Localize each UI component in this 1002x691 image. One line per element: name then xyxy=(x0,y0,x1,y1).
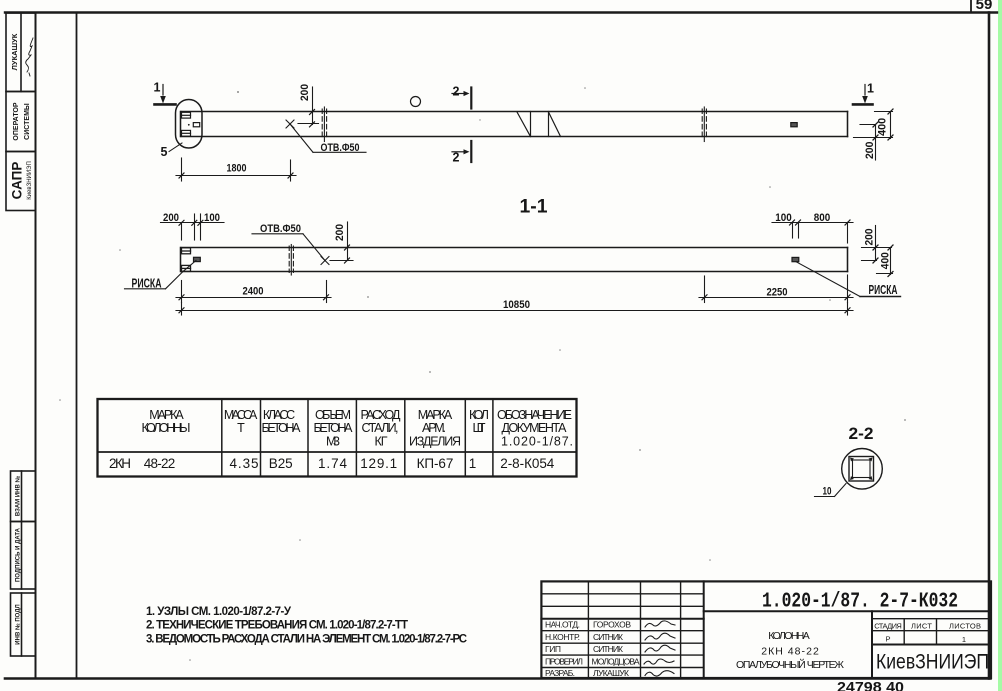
svg-text:4.35: 4.35 xyxy=(230,456,259,471)
margin stamp box PODPIS I DATA xyxy=(11,522,36,590)
svg-text:2. ТЕХНИЧЕСКИЕ ТРЕБОВАНИЯ СМ.: 2. ТЕХНИЧЕСКИЕ ТРЕБОВАНИЯ СМ. 1.020-1/87… xyxy=(146,620,408,632)
title block horizontal lines xyxy=(541,594,991,668)
svg-text:1800: 1800 xyxy=(227,163,247,175)
svg-text:ОПАЛУБОЧНЫЙ ЧЕРТЕЖ: ОПАЛУБОЧНЫЙ ЧЕРТЕЖ xyxy=(736,658,844,671)
svg-text:5: 5 xyxy=(161,145,168,159)
label 10 with leader xyxy=(815,484,847,498)
svg-text:Т: Т xyxy=(237,421,245,435)
column end bottom plate (1-1) xyxy=(182,265,191,271)
svg-text:СИСТЕМЫ: СИСТЕМЫ xyxy=(24,103,31,140)
svg-text:МОЛОДЦОВА: МОЛОДЦОВА xyxy=(592,657,640,667)
svg-text:1-1: 1-1 xyxy=(520,197,548,218)
svg-text:КЛАСС: КЛАСС xyxy=(263,408,295,422)
margin stamp box LUKASHUK xyxy=(6,13,36,92)
svg-text:ПОДПИСЬ И ДАТА: ПОДПИСЬ И ДАТА xyxy=(16,527,22,582)
svg-text:1.020-1/87.: 1.020-1/87. xyxy=(501,434,573,448)
column end top plate (top view) xyxy=(182,112,191,118)
detail circle 2-2 xyxy=(842,449,883,490)
svg-text:СТАДИЯ: СТАДИЯ xyxy=(874,622,902,631)
notes text block xyxy=(146,606,467,645)
svg-text:РАЗРАБ.: РАЗРАБ. xyxy=(545,668,575,678)
page number box 59 xyxy=(971,0,992,13)
spec table grid xyxy=(98,399,577,477)
organization name KievZNIIEP xyxy=(876,650,989,673)
svg-text:БЕТОНА: БЕТОНА xyxy=(262,421,302,435)
svg-text:ОТВ.Ф50: ОТВ.Ф50 xyxy=(321,142,360,154)
svg-text:АРМ.: АРМ. xyxy=(422,421,446,435)
svg-text:2250: 2250 xyxy=(767,287,788,299)
svg-text:400: 400 xyxy=(876,118,888,136)
svg-text:1.020-1/87. 2-7-К032: 1.020-1/87. 2-7-К032 xyxy=(762,591,958,614)
hole cross OTV F50 (1-1) xyxy=(252,223,329,265)
right end dims 400 and 200 (top view) xyxy=(854,109,894,160)
svg-text:БЕТОНА: БЕТОНА xyxy=(314,421,354,435)
svg-text:10850: 10850 xyxy=(503,299,530,311)
svg-text:МАССА: МАССА xyxy=(224,408,258,422)
column end top plate (1-1) xyxy=(182,248,191,254)
handwritten archive number 24798 40 xyxy=(837,679,904,691)
svg-text:ИЗДЕЛИЯ: ИЗДЕЛИЯ xyxy=(409,434,461,448)
svg-text:ГОРОХОВ: ГОРОХОВ xyxy=(593,620,631,630)
svg-text:2-2: 2-2 xyxy=(849,424,874,443)
dimension 2400 xyxy=(176,281,331,303)
svg-text:ЛУКАШУК: ЛУКАШУК xyxy=(593,668,629,678)
riska mark right (1-1) with leader xyxy=(792,257,901,297)
svg-text:400: 400 xyxy=(880,252,892,269)
center dot in oval xyxy=(188,124,190,126)
console parallelogram (top view) xyxy=(517,112,561,137)
dimension 200 at hole (top view) xyxy=(298,84,319,127)
svg-text:200: 200 xyxy=(864,229,876,246)
svg-text:РИСКА: РИСКА xyxy=(869,283,898,297)
margin stamp box OPERATOR SISTEMY xyxy=(6,92,36,152)
svg-text:200: 200 xyxy=(163,212,179,224)
section mark 2 bottom xyxy=(452,141,471,165)
svg-text:2: 2 xyxy=(453,85,460,99)
spec table header texts xyxy=(142,408,574,448)
svg-text:1: 1 xyxy=(962,635,966,644)
title block signatures xyxy=(644,621,675,676)
sheet bottom frame line xyxy=(5,677,991,680)
riska mark left (1-1) with leader xyxy=(125,257,201,290)
svg-text:ОБОЗНАЧЕНИЕ: ОБОЗНАЧЕНИЕ xyxy=(497,408,572,422)
svg-text:КОЛ: КОЛ xyxy=(469,408,489,422)
svg-text:КП-67: КП-67 xyxy=(417,456,454,471)
svg-text:ЛИСТ: ЛИСТ xyxy=(911,622,932,631)
svg-text:КГ: КГ xyxy=(375,434,388,448)
svg-text:НАЧ.ОТД.: НАЧ.ОТД. xyxy=(545,620,580,630)
svg-text:Р: Р xyxy=(885,635,890,644)
svg-text:48-22: 48-22 xyxy=(144,456,176,471)
svg-text:РАСХОД: РАСХОД xyxy=(361,408,402,422)
svg-text:200: 200 xyxy=(334,224,346,241)
title block vertical lines xyxy=(588,581,936,678)
green scanner strip xyxy=(998,0,1002,691)
label 1-1 xyxy=(520,197,548,218)
column cross-section square xyxy=(849,457,874,482)
riska mark right (top view) xyxy=(791,123,797,127)
svg-text:24798 40: 24798 40 xyxy=(837,679,904,691)
svg-text:ДОКУМЕНТА: ДОКУМЕНТА xyxy=(502,421,568,435)
dimensions 200 and 100 top-left (1-1) xyxy=(161,212,225,240)
svg-text:ЛУКАШУК: ЛУКАШУК xyxy=(10,33,19,70)
svg-text:ЛИСТОВ: ЛИСТОВ xyxy=(949,622,981,631)
svg-text:ИНВ № ПОДЛ: ИНВ № ПОДЛ xyxy=(15,604,22,644)
svg-text:1: 1 xyxy=(154,81,161,95)
svg-text:59: 59 xyxy=(976,0,993,13)
section mark 1 left xyxy=(154,81,176,105)
label 2-2 xyxy=(849,424,874,443)
svg-text:200: 200 xyxy=(299,84,311,101)
svg-text:КиевЗНИИЭП: КиевЗНИИЭП xyxy=(27,161,33,200)
svg-text:2КН 48-22: 2КН 48-22 xyxy=(761,646,819,658)
joint dashed lines (1-1) xyxy=(289,245,293,276)
svg-text:10: 10 xyxy=(823,486,832,498)
svg-text:СТАЛИ,: СТАЛИ, xyxy=(362,421,399,435)
svg-text:МАРКА: МАРКА xyxy=(149,408,184,422)
small circle hole on top face xyxy=(411,97,421,107)
title block drawing name xyxy=(736,630,844,671)
title block document number xyxy=(762,591,958,614)
svg-text:1.74: 1.74 xyxy=(318,456,347,471)
sheet right frame line xyxy=(988,13,991,679)
svg-text:1: 1 xyxy=(469,456,477,471)
svg-text:800: 800 xyxy=(814,212,831,224)
section mark 2 top xyxy=(452,85,471,109)
title block role labels xyxy=(545,620,583,679)
svg-text:ОПЕРАТОР: ОПЕРАТОР xyxy=(13,102,20,140)
svg-text:2400: 2400 xyxy=(243,286,264,298)
label 5 with leader xyxy=(161,143,182,159)
svg-text:200: 200 xyxy=(864,142,876,160)
sheet left edge line xyxy=(35,13,37,679)
svg-text:2-8-К054: 2-8-К054 xyxy=(500,456,554,471)
svg-text:М3: М3 xyxy=(326,434,340,448)
dimension 200 at hole (1-1) xyxy=(330,222,353,263)
svg-text:КОЛОННА: КОЛОННА xyxy=(768,630,810,642)
spec table body texts xyxy=(109,456,555,471)
svg-text:1. УЗЛЫ СМ. 1.020-1/87.2-7-У: 1. УЗЛЫ СМ. 1.020-1/87.2-7-У xyxy=(146,606,292,618)
hole cross OTV F50 (top view) xyxy=(286,120,366,154)
margin stamp box VZAM INV xyxy=(11,471,36,522)
column bar 1-1 outline xyxy=(181,248,848,272)
svg-text:ВЗАМ ИНВ №: ВЗАМ ИНВ № xyxy=(15,476,22,517)
title block outer border xyxy=(541,581,991,678)
svg-text:В25: В25 xyxy=(269,456,293,471)
dimensions 100 and 800 top-right (1-1) xyxy=(772,212,853,243)
svg-text:100: 100 xyxy=(775,212,792,224)
svg-text:1: 1 xyxy=(867,82,874,96)
detail balloon oval 5 xyxy=(176,100,203,149)
scan speckles xyxy=(59,87,906,661)
svg-text:ПРОВЕРИЛ: ПРОВЕРИЛ xyxy=(545,657,583,667)
column bar top view outline xyxy=(181,112,848,137)
joint dashed lines left (top view) xyxy=(322,107,326,142)
svg-text:3. ВЕДОМОСТЬ РАСХОДА СТАЛИ НА: 3. ВЕДОМОСТЬ РАСХОДА СТАЛИ НА ЭЛЕМЕНТ СМ… xyxy=(146,633,467,645)
svg-text:2КН: 2КН xyxy=(109,456,131,471)
svg-text:ГИП: ГИП xyxy=(545,644,561,654)
margin stamp box INV N PODL xyxy=(11,593,36,656)
svg-text:СИТНИК: СИТНИК xyxy=(593,632,623,642)
section mark 1 right xyxy=(853,82,874,105)
joint dashed lines right (top view) xyxy=(702,107,706,142)
inner drawing frame left line xyxy=(76,13,78,679)
svg-text:РИСКА: РИСКА xyxy=(132,277,162,291)
title block stage cells xyxy=(874,622,981,645)
svg-text:МАРКА: МАРКА xyxy=(418,408,453,422)
svg-text:КОЛОННЫ: КОЛОННЫ xyxy=(142,421,191,435)
margin stamp box SAPR KievZNIIEP xyxy=(6,152,36,211)
dimension 2250 xyxy=(699,275,853,303)
svg-text:ОБЪЕМ: ОБЪЕМ xyxy=(315,408,351,422)
svg-text:ОТВ.Ф50: ОТВ.Ф50 xyxy=(260,223,301,235)
svg-text:2: 2 xyxy=(453,151,460,165)
right end dims 200 and 400 (1-1) xyxy=(862,226,894,277)
sheet top frame line xyxy=(5,11,997,13)
dimension 1800 xyxy=(176,158,296,181)
riska mark left (top view) xyxy=(193,123,199,127)
svg-text:КиевЗНИИЭП: КиевЗНИИЭП xyxy=(876,650,989,673)
column end bottom plate (top view) xyxy=(182,130,191,136)
svg-text:100: 100 xyxy=(204,212,220,224)
svg-text:Н.КОНТР.: Н.КОНТР. xyxy=(545,632,580,642)
svg-text:САПР: САПР xyxy=(10,162,25,200)
svg-text:129.1: 129.1 xyxy=(360,456,397,471)
title block name labels xyxy=(592,620,640,679)
svg-text:ШТ: ШТ xyxy=(473,421,486,435)
dimension 10850 xyxy=(176,299,853,315)
svg-text:СИТНИК: СИТНИК xyxy=(593,644,623,654)
